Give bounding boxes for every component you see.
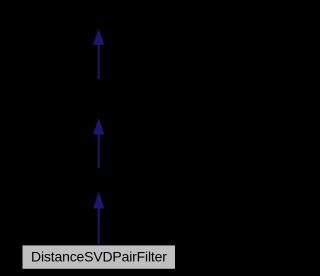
inheritance arrow 2 (middle) (93, 118, 104, 168)
inheritance arrow 3 (bottom, from DistanceSVDPairFilter) (93, 192, 104, 246)
svg-text:DistanceSVDPairFilter: DistanceSVDPairFilter (31, 249, 167, 265)
inheritance arrow 1 (top, to invisible base node) (93, 28, 104, 79)
node DistanceSVDPairFilter (current class, grey box) (22, 244, 177, 269)
